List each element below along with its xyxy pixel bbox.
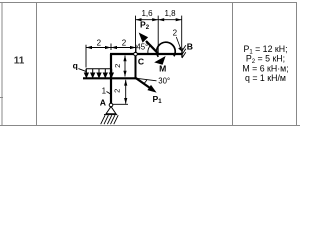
svg-text:1,6: 1,6 <box>141 9 153 18</box>
distributed load q box top <box>86 68 112 70</box>
svg-text:1,8: 1,8 <box>164 9 176 18</box>
dimension line 1,6 / 1,8 top <box>136 16 182 53</box>
svg-text:B: B <box>187 41 193 51</box>
svg-text:2: 2 <box>113 64 122 68</box>
column A to top <box>110 54 112 104</box>
leader arrowhead at B <box>178 47 181 51</box>
svg-text:30°: 30° <box>158 77 170 86</box>
svg-text:P2: P2 <box>140 20 150 31</box>
svg-text:P1: P1 <box>152 94 162 105</box>
svg-text:M = 6 кН·м;: M = 6 кН·м; <box>242 63 288 73</box>
moment M arrowhead <box>154 56 165 65</box>
hinge C circle <box>134 52 138 56</box>
svg-text:q = 1 кН/м: q = 1 кН/м <box>245 73 286 83</box>
support A base line <box>104 114 117 116</box>
vertical dimension 2 (upper, C to beam) <box>124 56 126 77</box>
svg-text:q: q <box>73 60 78 70</box>
svg-text:2: 2 <box>112 89 121 93</box>
svg-text:A: A <box>100 98 106 108</box>
table border right <box>296 2 298 126</box>
table border top <box>0 2 297 4</box>
45 degree arc <box>148 45 151 53</box>
table border bottom <box>0 125 300 127</box>
force P2 arrow <box>146 41 158 53</box>
support A hatching <box>101 115 119 124</box>
vertical dimension 2 (lower, beam to A) <box>113 80 128 105</box>
q box left edge <box>85 69 87 73</box>
force P1 arrow <box>136 78 151 88</box>
support B hatching <box>182 45 186 58</box>
svg-text:2: 2 <box>122 38 127 47</box>
given values text <box>242 44 288 83</box>
left edge stub <box>0 97 3 99</box>
top member CB <box>110 53 182 55</box>
30 degree reference line <box>136 78 157 81</box>
table border left <box>1 2 3 126</box>
moment M arc <box>157 42 176 57</box>
svg-text:45°: 45° <box>136 43 148 52</box>
right vertical member C down <box>135 54 137 78</box>
svg-text:11: 11 <box>14 56 25 67</box>
q box right edge <box>111 69 113 73</box>
dimension line 2+2 over beam <box>86 44 136 68</box>
svg-text:M: M <box>159 64 166 74</box>
support A hinge circle <box>109 103 113 107</box>
q load arrows <box>85 69 114 77</box>
svg-text:1: 1 <box>102 87 107 96</box>
leader for 2 to B <box>176 37 181 49</box>
support B wall bar <box>181 48 183 58</box>
beam with q load <box>83 77 136 79</box>
svg-text:2: 2 <box>173 29 178 38</box>
q leader line <box>78 69 86 72</box>
30 degree arc <box>144 80 147 84</box>
svg-text:2: 2 <box>97 38 102 47</box>
svg-text:C: C <box>138 56 144 66</box>
leader for 1 <box>107 92 111 95</box>
table divider right of diagram <box>232 2 234 126</box>
support A triangle <box>106 107 116 114</box>
table divider left of diagram <box>36 2 38 126</box>
